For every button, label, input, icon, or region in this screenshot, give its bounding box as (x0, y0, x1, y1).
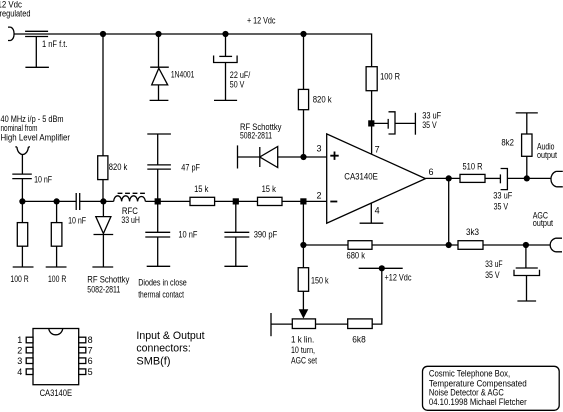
svg-text:3k3: 3k3 (466, 227, 479, 237)
svg-text:47 pF: 47 pF (181, 163, 200, 173)
svg-text:High Level Amplifier: High Level Amplifier (1, 132, 71, 142)
svg-text:output: output (533, 218, 554, 228)
svg-text:10 turn,: 10 turn, (291, 345, 315, 355)
diode D3 1N4001 (150, 34, 169, 100)
resistor R3 820k right (298, 34, 308, 157)
capacitor C2 22uF electrolytic (214, 34, 238, 100)
node junction input/R5 (19, 198, 25, 204)
connector J2 40MHz input SMB(f) (15, 147, 30, 174)
svg-text:10 nF: 10 nF (34, 174, 52, 184)
value label RF Schottky 5082-2811 upper (240, 122, 282, 140)
op-amp U1 CA3140E (327, 134, 426, 223)
resistor R13 150k (298, 245, 308, 311)
wire pin4 (370, 203, 372, 223)
label diodes thermal note (138, 278, 187, 300)
svg-text:10 nF: 10 nF (68, 215, 86, 225)
svg-text:100 R: 100 R (48, 274, 67, 284)
capacitor C10 33uF AGC filter (514, 245, 540, 301)
svg-text:7: 7 (375, 144, 380, 154)
label Input and Output connectors (136, 330, 204, 368)
svg-text:33 uF: 33 uF (422, 111, 441, 121)
svg-text:510 R: 510 R (463, 161, 483, 171)
value label 1k lin 10 turn AGC set (291, 335, 317, 366)
wire main signal line (22, 200, 326, 202)
capacitor C9 33uF audio coupling (485, 169, 551, 190)
ground bar C5 top (147, 133, 171, 135)
svg-text:50 V: 50 V (230, 80, 245, 90)
terminator bar C7 (414, 113, 416, 135)
ground bar R5 (13, 266, 34, 268)
wire output to feedback (448, 178, 450, 245)
ground bar C10 (517, 300, 536, 302)
svg-text:6: 6 (429, 167, 434, 177)
node junction rail/820k-right (300, 31, 306, 37)
svg-text:CA3140E: CA3140E (40, 388, 72, 398)
svg-text:3: 3 (17, 356, 22, 366)
label: 12 Vdc regulated (0, 0, 31, 19)
ground bar R6 (46, 266, 67, 268)
node junction D1/RFC (100, 198, 106, 204)
svg-text:Cosmic Telephone Box,: Cosmic Telephone Box, (429, 368, 510, 378)
capacitor C4 10nF coupling (76, 193, 80, 210)
svg-text:RF Schottky: RF Schottky (87, 275, 129, 285)
capacitor C3 10nF input (12, 174, 32, 201)
value label RFC 33uH (121, 206, 139, 225)
capacitor C7 33uF pin7 bypass (371, 112, 415, 134)
resistor R2 820k left (98, 34, 108, 201)
svg-text:390 pF: 390 pF (254, 229, 278, 239)
diode D1 RF Schottky 5082-2811 (94, 201, 114, 267)
potentiometer VR1 1k lin (271, 319, 348, 329)
svg-text:connectors:: connectors: (136, 343, 190, 355)
svg-text:8: 8 (88, 335, 93, 345)
connector J3 audio output SMB(f) (551, 171, 563, 186)
svg-text:Diodes in close: Diodes in close (138, 278, 187, 288)
label Audio output (537, 142, 557, 160)
svg-text:100 R: 100 R (380, 72, 400, 82)
svg-text:10 nF: 10 nF (178, 229, 197, 239)
svg-text:22 uF/: 22 uF/ (230, 70, 251, 80)
capacitor C5 47pF (147, 134, 171, 201)
ground bar D3 (150, 99, 169, 101)
node junction pin7/bypass cap (368, 120, 374, 126)
svg-text:Input & Output: Input & Output (136, 330, 204, 342)
terminator bar 8k2 top (516, 112, 538, 114)
node junction pin3 (300, 154, 306, 160)
title box (423, 366, 560, 410)
svg-text:6k8: 6k8 (352, 335, 365, 345)
ground bar C1 (25, 66, 49, 68)
svg-text:820 k: 820 k (109, 162, 128, 172)
svg-text:1 nF f.t.: 1 nF f.t. (42, 39, 67, 49)
svg-text:AGC set: AGC set (291, 356, 317, 366)
ground bar C6 (147, 265, 171, 267)
node junction feedback left (300, 242, 306, 248)
svg-text:2: 2 (317, 191, 322, 201)
connector J4 AGC output SMB(f) (550, 238, 562, 252)
node junction RFC/C5/C6 (155, 198, 161, 204)
node junction 15k/390pF (233, 198, 239, 204)
wire feedback line (303, 244, 550, 246)
node junction AGC out (523, 242, 529, 248)
svg-text:1N4001: 1N4001 (171, 70, 195, 80)
label 40MHz input note (1, 114, 71, 143)
svg-text:CA3140E: CA3140E (344, 171, 378, 181)
inductor L1 RFC 33uH (114, 193, 146, 201)
svg-text:33 uF: 33 uF (493, 191, 512, 201)
node junction R6 (54, 198, 60, 204)
value label 33uF 35V pin7 (422, 111, 441, 131)
svg-text:+ 12 Vdc: + 12 Vdc (247, 16, 276, 26)
ground bar C2 (214, 99, 237, 101)
resistor R6 100R input b (51, 201, 62, 267)
svg-text:680 k: 680 k (347, 250, 366, 260)
node junction rail/820k-left (100, 31, 106, 37)
svg-text:04.10.1998 Michael Fletcher: 04.10.1998 Michael Fletcher (429, 397, 527, 407)
label AGC output (533, 211, 554, 229)
svg-text:output: output (537, 150, 557, 160)
svg-text:33 uF: 33 uF (485, 259, 503, 269)
resistor R8 15k b (258, 197, 283, 205)
node junction +12V stub (379, 265, 385, 271)
ground bar D1 (92, 266, 113, 268)
capacitor C6 10nF mid (145, 201, 170, 266)
ground bar pin4 (360, 222, 384, 224)
node junction rail/1N4001 (155, 31, 161, 37)
svg-text:5082-2811: 5082-2811 (240, 130, 272, 140)
svg-text:100 R: 100 R (10, 274, 29, 284)
IC package U1 DIP-8 CA3140E (26, 329, 86, 385)
value label RF Schottky 5082-2811 lower (87, 275, 129, 295)
node junction rail/22uF (222, 31, 228, 37)
svg-text:regulated: regulated (0, 9, 31, 19)
resistor R7 15k a (190, 197, 215, 205)
node junction output (446, 175, 452, 181)
svg-text:5: 5 (88, 367, 93, 377)
wiper arrow onto pot (299, 309, 309, 318)
svg-text:15 k: 15 k (194, 184, 209, 194)
svg-text:150 k: 150 k (311, 276, 329, 286)
svg-text:35 V: 35 V (422, 120, 437, 130)
node junction audio out (524, 175, 530, 181)
svg-text:+12 Vdc: +12 Vdc (385, 273, 412, 283)
supply stub +12Vdc mid (359, 267, 403, 269)
svg-text:2: 2 (17, 345, 22, 355)
resistor R11 680k feedback (348, 241, 372, 250)
terminator bar pot left (270, 313, 272, 336)
resistor R10 8k2 (522, 113, 532, 178)
resistor R9 510R (460, 174, 485, 182)
wire +12V rail (14, 34, 372, 67)
svg-text:15 k: 15 k (262, 184, 277, 194)
value label 33uF 35V audio (493, 191, 512, 212)
resistor R5 100R input a (17, 201, 27, 267)
svg-text:35 V: 35 V (485, 270, 500, 280)
svg-text:4: 4 (17, 367, 22, 377)
connector J1 12Vdc input SMB(f) (8, 27, 14, 40)
svg-text:thermal contact: thermal contact (138, 289, 184, 299)
svg-text:820 k: 820 k (313, 95, 332, 105)
svg-text:Noise Detector & AGC: Noise Detector & AGC (429, 388, 504, 398)
value label 33uF 35V AGC (485, 259, 503, 280)
resistor R4 100R top (366, 67, 377, 154)
svg-text:4: 4 (375, 206, 380, 216)
svg-text:1: 1 (17, 335, 22, 345)
wire pin2 to feedback node (302, 201, 304, 245)
svg-text:33 uH: 33 uH (121, 215, 139, 225)
ground bar C8 (224, 265, 247, 267)
value label 22uF/50V (230, 70, 251, 90)
svg-text:5082-2811: 5082-2811 (87, 284, 120, 294)
svg-text:3: 3 (317, 144, 322, 154)
node junction feedback right (446, 242, 452, 248)
wire output pin6 (426, 177, 461, 179)
svg-text:1 k lin.: 1 k lin. (291, 335, 314, 345)
svg-text:35 V: 35 V (494, 201, 509, 211)
node junction pin2 (300, 198, 306, 204)
resistor R14 6k8 (348, 268, 382, 328)
svg-text:8k2: 8k2 (501, 137, 514, 147)
svg-text:SMB(f): SMB(f) (136, 355, 170, 367)
capacitor C8 390pF (224, 201, 249, 266)
svg-text:7: 7 (88, 345, 93, 355)
capacitor C1 1nF feedthrough (25, 31, 48, 67)
resistor R12 3k3 (458, 241, 483, 250)
diode D2 RF Schottky compensation (238, 145, 327, 168)
svg-text:6: 6 (88, 356, 93, 366)
